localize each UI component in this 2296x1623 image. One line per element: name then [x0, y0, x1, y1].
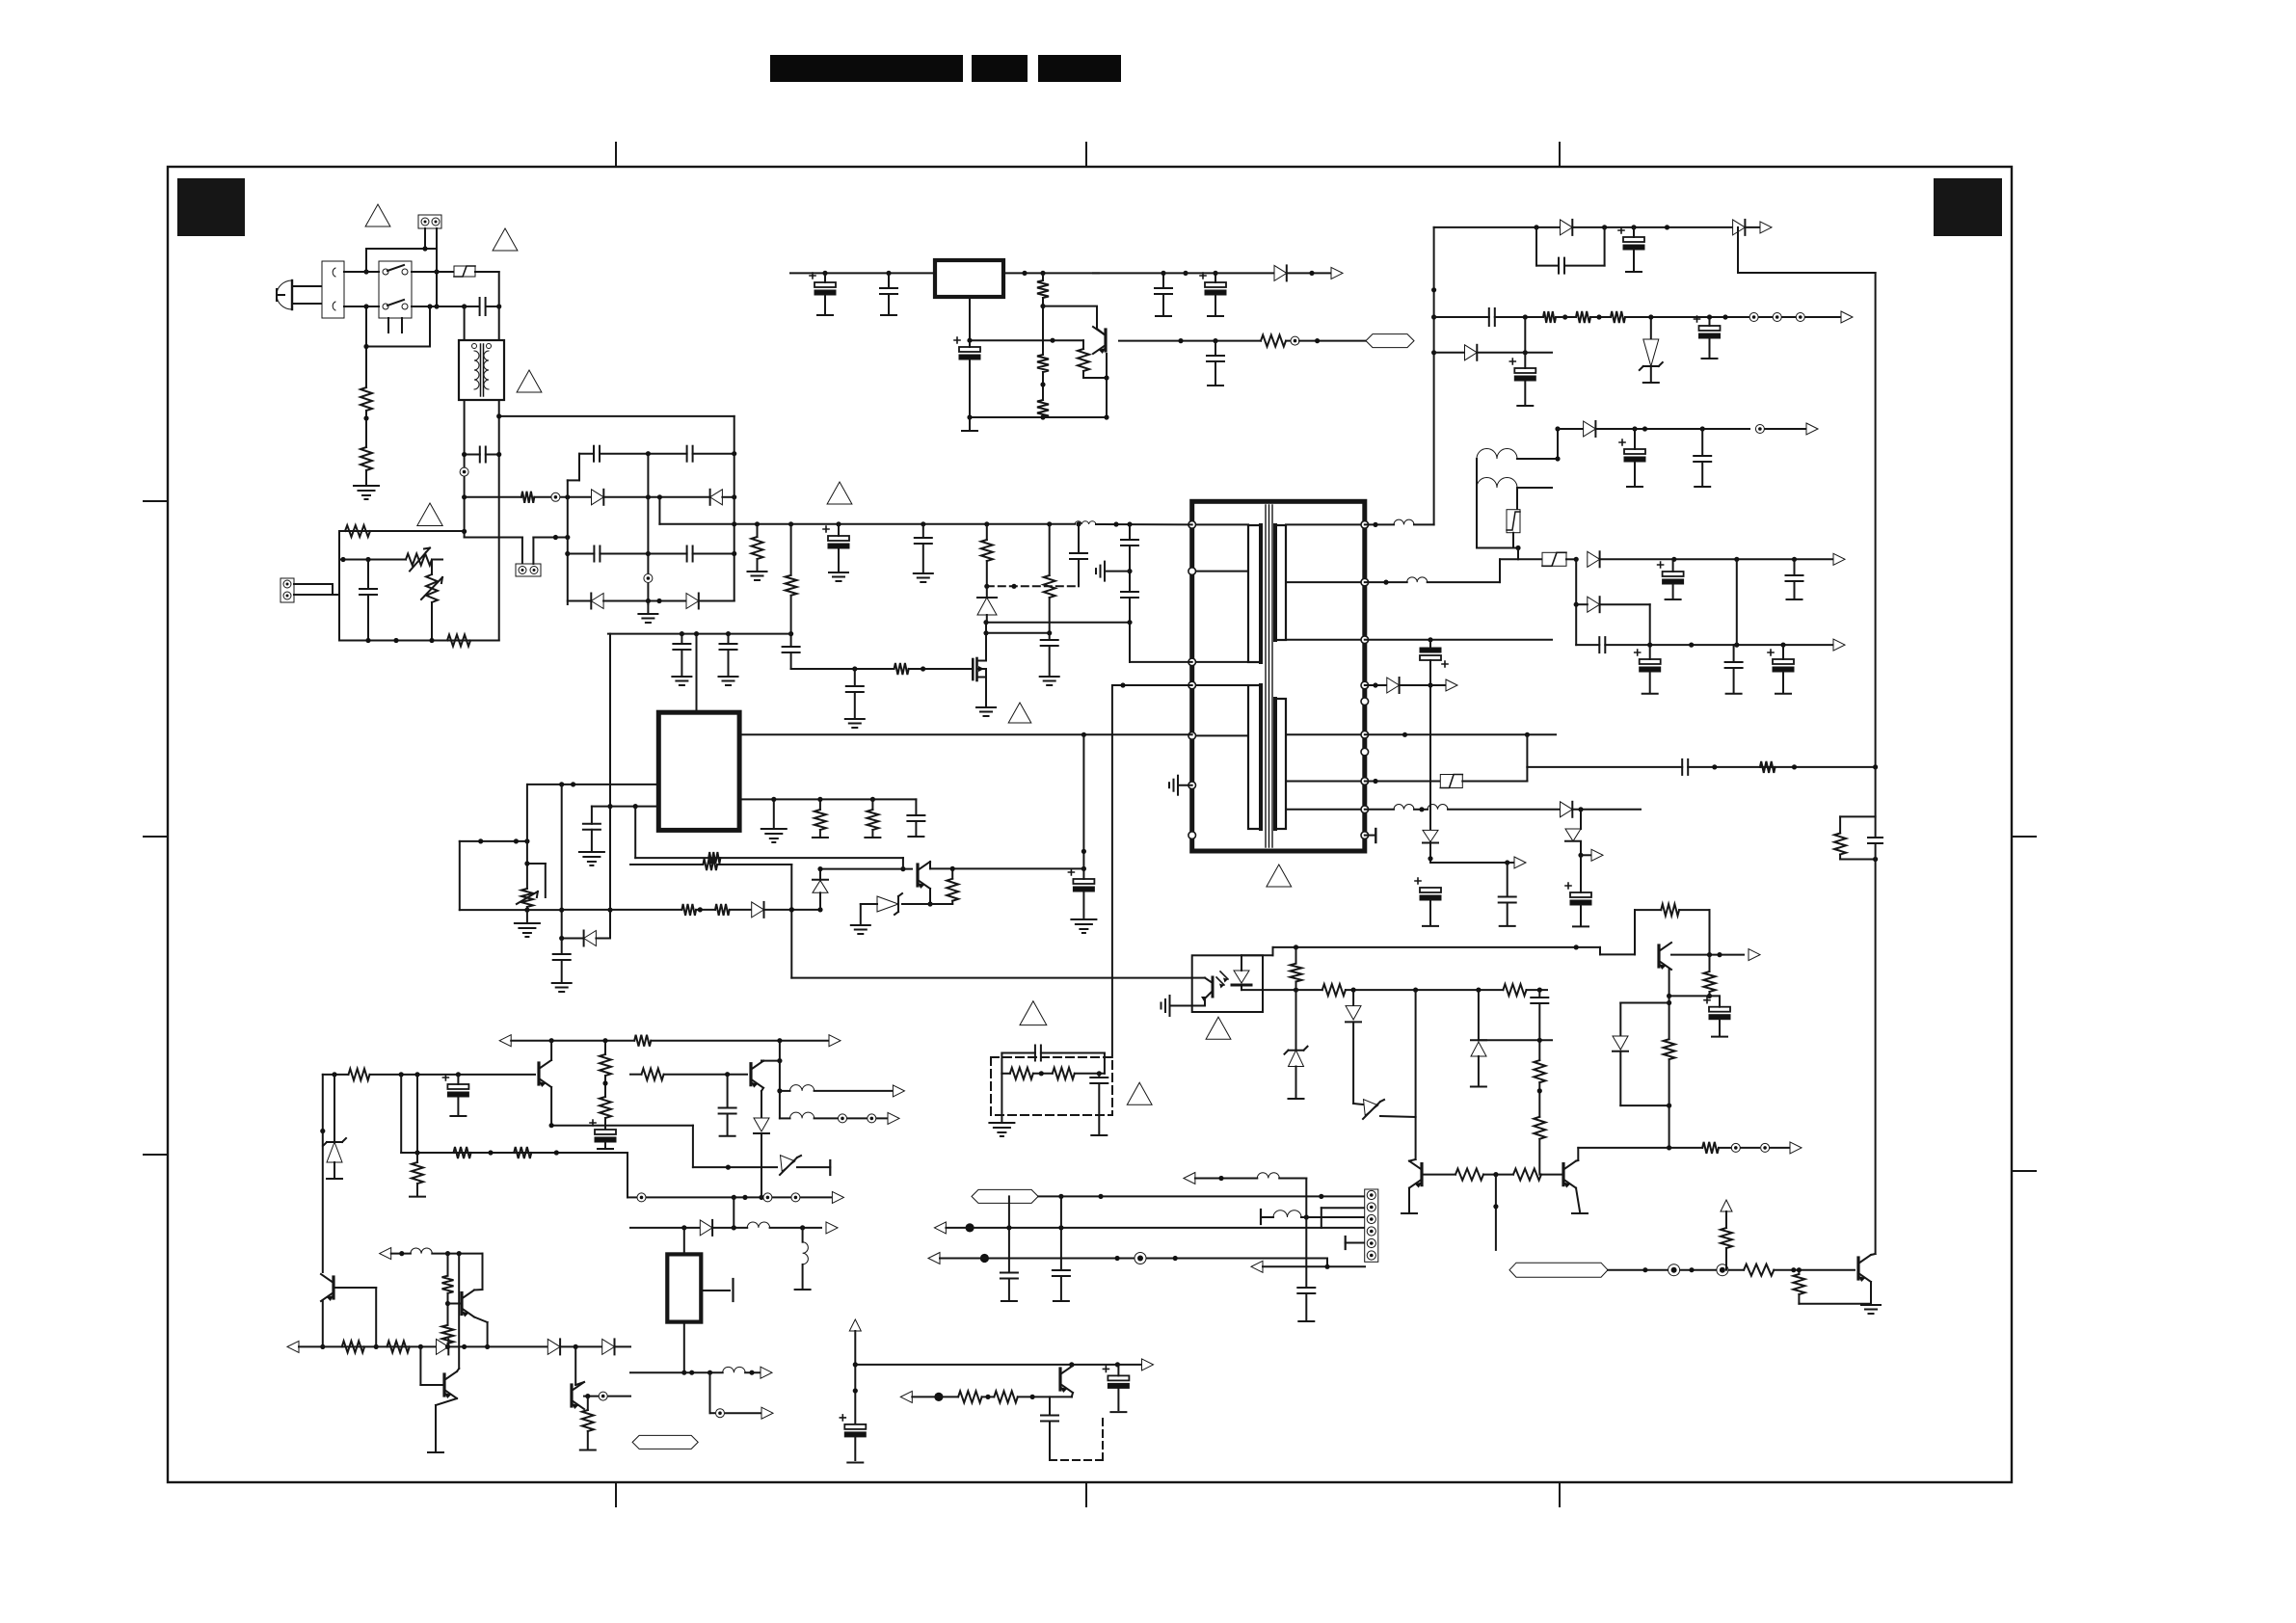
wire	[986, 586, 988, 596]
wire	[819, 869, 821, 880]
wire	[596, 938, 610, 940]
capacitor capacitor C45	[1531, 998, 1548, 1003]
junction	[1428, 682, 1432, 687]
capacitor capacitor C31	[1599, 637, 1605, 652]
junction	[1596, 314, 1601, 319]
wire	[1195, 1178, 1257, 1180]
resistor resistor R49	[1664, 1039, 1675, 1059]
rail end	[881, 314, 896, 316]
wire	[339, 640, 499, 642]
wire	[1599, 947, 1601, 955]
wire	[802, 1228, 804, 1242]
wire	[448, 1303, 463, 1305]
junction	[1534, 225, 1538, 229]
junction	[1493, 1172, 1498, 1177]
wire	[696, 634, 698, 713]
wire	[1241, 955, 1242, 971]
junction	[1115, 1256, 1120, 1261]
resistor resistor R25	[703, 859, 717, 870]
wire	[1600, 558, 1833, 560]
wire	[871, 799, 873, 810]
rail end	[908, 836, 923, 838]
wire	[819, 830, 821, 837]
rail end	[865, 837, 880, 838]
pin	[1188, 521, 1196, 529]
wire	[634, 807, 636, 859]
junction	[1040, 304, 1045, 308]
wire	[986, 622, 1130, 624]
wire	[1478, 990, 1480, 1040]
diode diode D15	[700, 1220, 712, 1236]
junction	[1319, 1194, 1323, 1199]
wire	[511, 1040, 634, 1042]
wire	[1295, 947, 1297, 964]
junction	[742, 1195, 747, 1200]
wire	[424, 228, 426, 249]
junction	[1647, 643, 1652, 648]
wire	[761, 1133, 762, 1197]
junction	[514, 838, 519, 843]
wire	[560, 1345, 602, 1347]
diode diode D2	[1733, 220, 1746, 235]
wire	[1353, 1104, 1363, 1104]
diode diode D10	[584, 931, 597, 946]
junction	[983, 630, 988, 635]
test point	[1717, 1264, 1728, 1276]
junction	[1315, 338, 1320, 343]
junction	[1665, 225, 1669, 229]
junction	[1183, 271, 1188, 276]
wire	[627, 1196, 636, 1198]
signal arrow	[826, 1222, 838, 1234]
junction	[1113, 521, 1118, 526]
junction	[1707, 994, 1712, 998]
inductor inductor L5	[1407, 577, 1428, 582]
junction	[1537, 1038, 1542, 1043]
capacitor capacitor C10	[783, 647, 800, 652]
wire	[332, 584, 334, 595]
capacitor capacitor C21 (electrolytic)	[1200, 273, 1226, 295]
transistor Q2 (MOSFET)	[973, 658, 986, 680]
wire	[366, 248, 437, 250]
wire	[1839, 816, 1841, 833]
junction	[1632, 426, 1637, 431]
junction	[852, 666, 857, 671]
wire	[532, 538, 534, 565]
junction	[967, 414, 972, 419]
wire	[1215, 273, 1216, 282]
wire	[1527, 989, 1548, 991]
junction	[1689, 643, 1694, 648]
rail end	[1289, 1098, 1304, 1100]
junction	[456, 1072, 461, 1077]
wire	[1096, 523, 1192, 525]
junction	[320, 1344, 325, 1349]
wire	[474, 1290, 488, 1322]
wire	[487, 1322, 489, 1346]
wire	[1578, 1147, 1702, 1149]
resistor resistor R6	[752, 537, 763, 559]
wire	[1725, 1211, 1727, 1228]
capacitor capacitor C11	[673, 644, 690, 650]
wire	[1273, 946, 1601, 948]
connector X5	[1365, 1189, 1378, 1262]
rail end	[1573, 925, 1589, 927]
wire	[482, 1254, 484, 1290]
signal arrow	[1514, 857, 1526, 868]
capacitor capacitor C17	[880, 288, 897, 294]
wire	[1286, 581, 1365, 583]
wire	[486, 306, 499, 307]
wire	[1679, 909, 1709, 911]
wire	[1305, 1179, 1307, 1289]
wire	[615, 1345, 631, 1347]
wire	[1633, 250, 1635, 271]
wire	[1604, 227, 1606, 266]
ground ground GND4	[515, 923, 540, 937]
isolation box	[991, 1057, 1112, 1115]
wire	[757, 524, 759, 537]
junction	[1792, 764, 1797, 769]
resistor resistor R12	[1037, 355, 1049, 372]
junction	[1671, 557, 1676, 562]
wire	[498, 272, 500, 340]
junction	[1578, 853, 1583, 858]
wire	[1517, 487, 1552, 489]
wire	[681, 650, 682, 675]
junction	[777, 1058, 782, 1063]
fuse fusible link F2	[1440, 775, 1462, 788]
junction	[462, 304, 467, 308]
wire	[1060, 1196, 1062, 1228]
signal arrow	[893, 1085, 904, 1097]
junction	[788, 631, 793, 636]
wire	[1082, 340, 1084, 349]
wire	[1414, 523, 1434, 525]
wire	[1162, 273, 1164, 288]
signal arrow	[380, 1248, 391, 1260]
junction	[559, 936, 564, 941]
junction	[771, 797, 776, 802]
wire	[486, 454, 499, 456]
rail end	[1666, 599, 1681, 600]
wire	[1634, 462, 1636, 486]
wire	[339, 559, 406, 561]
capacitor capacitor C7	[687, 546, 693, 562]
wire	[1082, 868, 1084, 879]
rail end	[1642, 693, 1658, 695]
wire	[1286, 639, 1365, 641]
diode D2	[710, 490, 723, 505]
capacitor capacitor C47 (electrolytic)	[442, 1075, 468, 1097]
wire	[1434, 316, 1489, 318]
resistor resistor R20	[708, 852, 720, 864]
junction	[1127, 620, 1132, 625]
junction	[363, 269, 368, 274]
wire	[366, 346, 430, 348]
title block bar	[1038, 55, 1121, 82]
wire	[459, 841, 461, 910]
wire	[761, 1061, 763, 1091]
junction	[1431, 350, 1436, 355]
transformer T1 (line filter)	[459, 340, 504, 400]
junction	[363, 415, 368, 420]
wire	[465, 537, 522, 539]
junction	[836, 521, 841, 526]
inductor inductor L11	[723, 1367, 745, 1372]
junction	[983, 620, 988, 625]
resistor resistor R22	[867, 810, 878, 830]
junction	[549, 1038, 554, 1043]
junction	[886, 271, 891, 276]
resistor resistor R2	[360, 447, 372, 470]
wire	[730, 909, 752, 911]
wire	[1178, 785, 1192, 786]
diode diode D9	[1565, 829, 1581, 841]
wire	[603, 496, 709, 498]
wire	[1295, 1067, 1297, 1099]
wire	[969, 340, 971, 347]
wire	[1479, 1039, 1552, 1041]
junction	[646, 551, 651, 556]
signal arrow	[1721, 1200, 1732, 1211]
wire	[1083, 377, 1107, 379]
wire	[1575, 559, 1577, 645]
wire	[854, 1437, 856, 1460]
junction	[1493, 1204, 1498, 1209]
junction	[789, 907, 794, 912]
resistor resistor R14	[1078, 349, 1089, 371]
capacitor C30 (electrolytic)	[1420, 648, 1448, 667]
wire	[1765, 428, 1805, 430]
pin	[1361, 698, 1369, 705]
diode D3	[591, 594, 603, 609]
wire	[1701, 429, 1703, 456]
wire	[1512, 533, 1514, 548]
junction	[732, 521, 736, 526]
corner block	[177, 178, 245, 236]
wire	[1365, 809, 1394, 811]
junction	[726, 631, 731, 636]
junction	[565, 535, 570, 540]
junction	[1104, 414, 1108, 419]
signal arrow	[1790, 1142, 1802, 1154]
wire	[929, 889, 931, 904]
pin	[1361, 521, 1369, 529]
diode D12	[813, 880, 828, 893]
junction	[1081, 866, 1086, 871]
wire	[587, 1431, 589, 1449]
wire	[1535, 227, 1537, 266]
wire	[1119, 340, 1261, 342]
wire	[1538, 1139, 1540, 1175]
signal arrow	[499, 1035, 511, 1047]
wire	[819, 799, 821, 810]
wire	[609, 634, 611, 939]
wire	[1106, 354, 1108, 417]
zener zener D2	[877, 893, 902, 915]
capacitor capacitor C5	[687, 446, 693, 462]
wire	[819, 892, 821, 910]
wire	[1041, 1052, 1105, 1054]
junction	[445, 1344, 450, 1349]
junction	[853, 1362, 858, 1367]
symbol warning triangle W2	[493, 228, 518, 251]
wire	[1430, 862, 1514, 864]
wire	[1433, 227, 1435, 525]
resistor resistor R39	[342, 1341, 364, 1352]
wire	[681, 634, 682, 644]
resistor resistor R36	[454, 1147, 471, 1158]
junction	[462, 529, 467, 534]
wire	[457, 1075, 459, 1084]
junction	[365, 557, 370, 562]
transistor Q4 (opto)	[1192, 977, 1213, 1006]
diode diode D7	[1387, 678, 1400, 693]
inductor inductor L13	[790, 1112, 814, 1118]
wire	[412, 271, 454, 273]
transistor Q7	[462, 1290, 474, 1317]
capacitor capacitor C34 (electrolytic)	[1635, 650, 1661, 672]
wire	[1669, 995, 1720, 997]
wire	[527, 784, 658, 785]
diode diode D12	[437, 1339, 449, 1354]
resistor resistor R37	[514, 1147, 531, 1158]
junction	[1383, 580, 1388, 585]
rail end	[1702, 358, 1718, 359]
junction	[602, 1080, 607, 1085]
junction	[1213, 271, 1217, 276]
pin	[1361, 732, 1369, 739]
wire	[435, 1405, 437, 1450]
wire	[1049, 598, 1051, 633]
junction	[1413, 988, 1418, 993]
wire	[1669, 1059, 1670, 1148]
junction	[927, 901, 932, 906]
wire	[986, 561, 988, 586]
junction	[457, 1251, 462, 1256]
capacitor capacitor C27 (electrolytic)	[1619, 439, 1645, 462]
wire	[739, 798, 916, 800]
connector X3	[280, 578, 294, 602]
wire	[1526, 767, 1528, 782]
capacitor capacitor C9	[915, 538, 932, 544]
wire	[412, 306, 479, 307]
capacitor capacitor C19	[1207, 356, 1224, 361]
resistor resistor R51	[1702, 1142, 1719, 1154]
wire	[1263, 1265, 1365, 1267]
rail end	[1110, 1411, 1126, 1413]
wire	[1117, 1365, 1119, 1376]
rail end	[1402, 1212, 1417, 1214]
wire	[416, 1075, 418, 1153]
wire	[499, 415, 734, 417]
wire	[1774, 1269, 1855, 1271]
junction	[1098, 1194, 1103, 1199]
wire	[1001, 1053, 1002, 1074]
diode diode D1	[1274, 265, 1287, 280]
signal arrow	[1184, 1173, 1195, 1184]
resistor resistor R52	[1455, 1169, 1483, 1181]
wire	[1759, 316, 1772, 318]
capacitor capacitor C53	[1297, 1288, 1315, 1293]
resistor resistor R57	[958, 1391, 982, 1402]
varistor varistor RV3	[517, 889, 538, 907]
junction	[1574, 602, 1579, 607]
junction	[1642, 426, 1647, 431]
junction	[549, 1123, 554, 1128]
wire	[448, 1345, 547, 1347]
wire	[604, 1118, 606, 1130]
wire	[1558, 428, 1584, 430]
zener zener D4	[1361, 1100, 1384, 1119]
junction	[689, 1370, 694, 1375]
inductor inductor L7	[1428, 805, 1448, 810]
wire	[391, 1253, 411, 1255]
junction	[363, 344, 368, 349]
resistor resistor R43	[582, 1410, 594, 1431]
wire	[334, 1162, 335, 1178]
resistor resistor R23	[681, 904, 696, 916]
inductor inductor L10	[803, 1242, 809, 1264]
wire	[1049, 1397, 1051, 1415]
wire	[1215, 295, 1216, 315]
wire	[1564, 265, 1605, 267]
pin	[1361, 832, 1369, 839]
rail end	[1375, 829, 1376, 842]
wire	[591, 830, 593, 850]
wire	[1672, 559, 1674, 572]
rail end	[1260, 1210, 1262, 1224]
zener zener D6	[778, 1156, 801, 1175]
wire	[1650, 366, 1652, 382]
wire	[457, 1097, 459, 1114]
wire	[1129, 623, 1131, 662]
wire	[699, 600, 734, 602]
junction	[1351, 988, 1356, 993]
test point	[1731, 1143, 1740, 1152]
wire	[728, 634, 730, 644]
wire	[561, 785, 563, 939]
wire	[779, 1041, 781, 1119]
wire	[367, 595, 369, 641]
wire	[600, 453, 687, 455]
resistor resistor R8	[894, 663, 909, 675]
fuse holder X1	[322, 261, 344, 318]
resistor resistor R10	[1044, 575, 1055, 598]
wire	[647, 601, 649, 615]
node net label N2	[632, 1435, 698, 1449]
wire	[1082, 371, 1084, 378]
resistor resistor R16	[1543, 311, 1556, 323]
ground ground chassis6	[719, 677, 738, 685]
wire	[1078, 524, 1080, 553]
wire	[1634, 429, 1636, 449]
junction	[1873, 857, 1878, 862]
rail end	[720, 1135, 735, 1137]
wire	[969, 297, 971, 340]
rail end	[450, 1115, 466, 1117]
regulator IC4	[667, 1254, 701, 1321]
wire	[1049, 633, 1051, 640]
junction	[1081, 732, 1086, 737]
wire	[1075, 1073, 1105, 1075]
wire	[1286, 340, 1291, 342]
inductor inductor L12	[790, 1085, 814, 1091]
wire	[1576, 1188, 1580, 1211]
wire	[1526, 734, 1528, 767]
wire	[717, 864, 791, 865]
